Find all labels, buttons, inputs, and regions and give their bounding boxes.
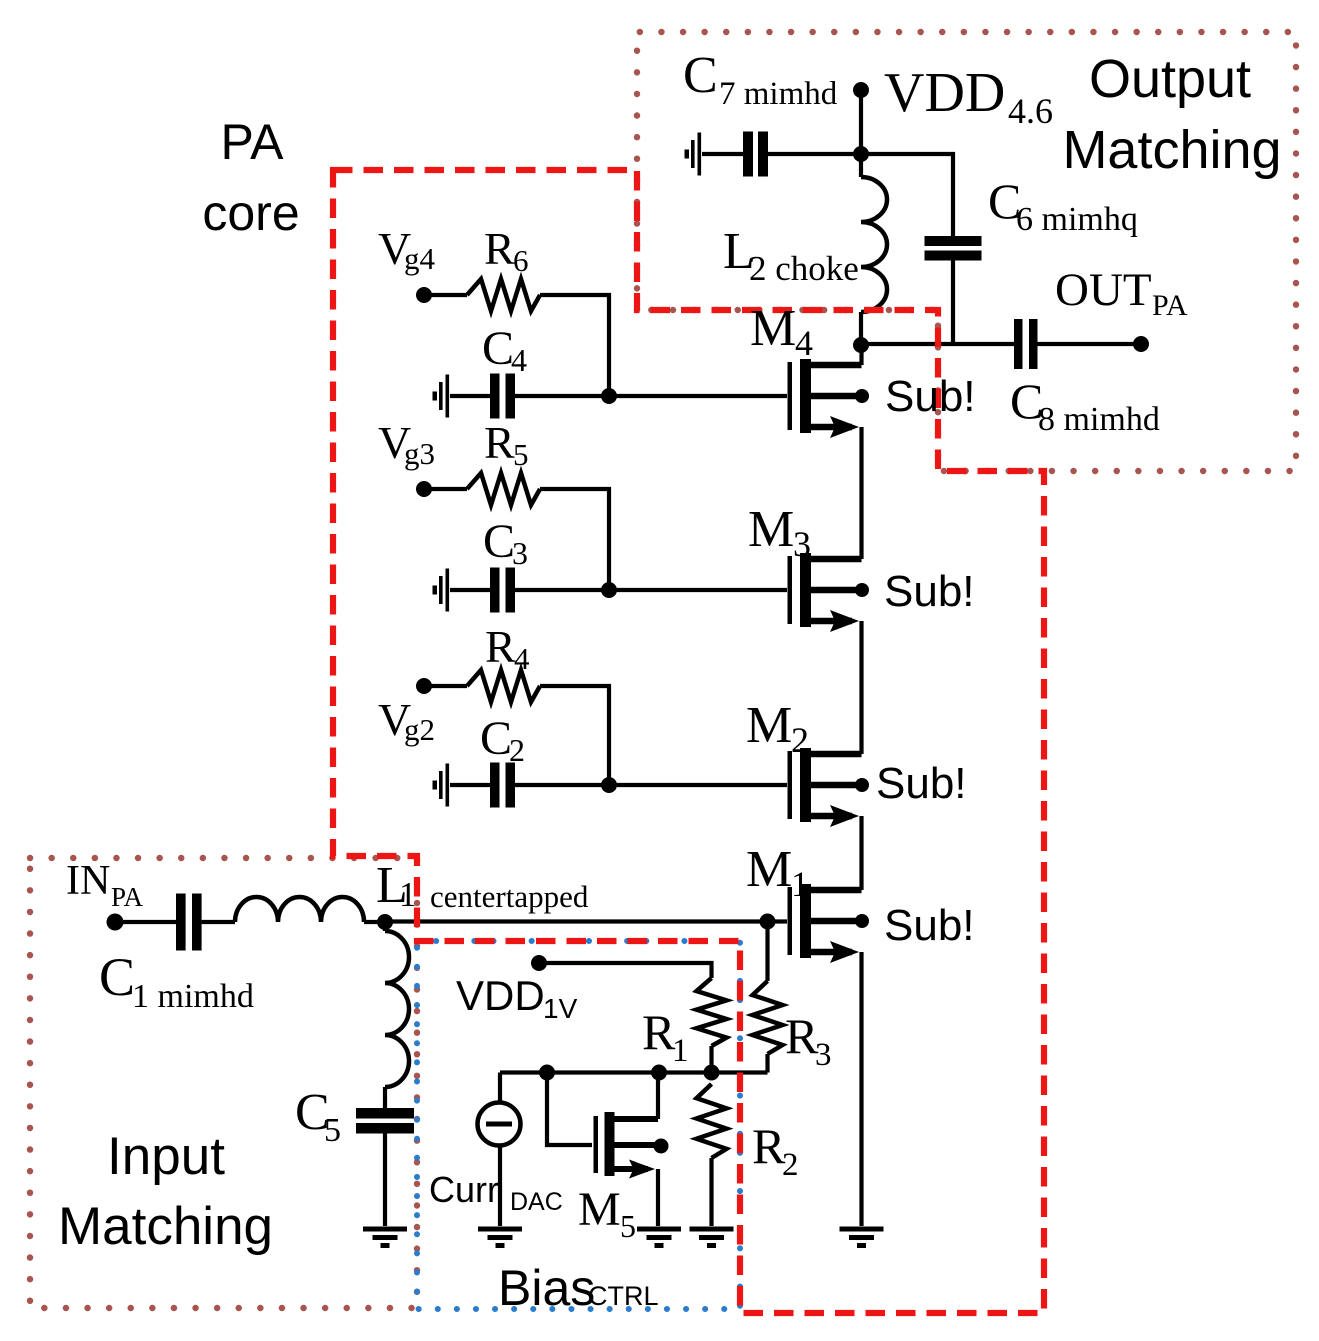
junction L1 center tap <box>377 914 393 930</box>
svg-text:IN: IN <box>66 858 110 904</box>
junction VDD/C7/C6 node <box>853 146 869 162</box>
junction gate node C4/R6 <box>601 388 617 404</box>
svg-text:M: M <box>748 501 794 558</box>
capacitor C6 <box>925 236 982 246</box>
resistor R3 <box>753 981 783 1054</box>
wire bias node rail <box>500 1070 768 1074</box>
wire C3 ground lead <box>450 588 490 592</box>
svg-text:2: 2 <box>782 1147 799 1183</box>
svg-text:centertapped: centertapped <box>430 879 589 914</box>
wire M2 source to M1 drain <box>859 816 863 890</box>
svg-text:DAC: DAC <box>510 1188 563 1216</box>
resistor R1 <box>697 978 727 1046</box>
ground (R2) <box>690 1227 734 1232</box>
svg-text:g4: g4 <box>404 241 436 276</box>
svg-text:1 mimhd: 1 mimhd <box>132 978 254 1015</box>
ground (M5 source) <box>637 1227 681 1232</box>
svg-text:PA: PA <box>1152 289 1188 322</box>
wire M5 drain to bias rail <box>656 1073 660 1120</box>
ground (M1 source) <box>840 1227 884 1232</box>
svg-text:Bias: Bias <box>498 1260 595 1316</box>
wire C7 ground lead <box>702 152 743 156</box>
junction M1 gate / R3 <box>760 914 776 930</box>
wire R5 to gate node <box>540 489 609 590</box>
wire C3 to gate node <box>515 588 609 592</box>
svg-text:Sub!: Sub! <box>884 567 975 616</box>
wire Vg2 to R4 <box>424 684 467 688</box>
svg-text:core: core <box>202 185 299 241</box>
ground (C3 left, small rotated) <box>446 569 450 612</box>
svg-text:8 mimhd: 8 mimhd <box>1038 401 1160 438</box>
wire L1 to center tap <box>364 920 385 924</box>
capacitor C8 <box>1014 319 1023 369</box>
wire Vg3 to R5 <box>424 487 467 491</box>
junction bias rail / M5 drain <box>651 1065 667 1081</box>
svg-text:4.6: 4.6 <box>1008 91 1053 131</box>
svg-text:OUT: OUT <box>1055 264 1152 316</box>
wire VDD1V to R1 <box>539 963 712 978</box>
wire VDD node to C6 top <box>861 154 953 237</box>
wire M1 source to ground <box>859 952 863 1226</box>
svg-text:VDD: VDD <box>884 62 1005 124</box>
svg-text:R: R <box>752 1118 786 1174</box>
transistor M1 <box>788 887 793 955</box>
wire R1 to bias node <box>709 1046 713 1073</box>
node VDD4.6 terminal <box>853 82 869 98</box>
wire center tap to M1 gate <box>385 919 787 923</box>
wire gate node to transistor gate <box>609 783 787 787</box>
svg-text:6 mimhq: 6 mimhq <box>1016 201 1138 238</box>
svg-text:C: C <box>482 322 514 375</box>
capacitor C3 <box>490 568 500 613</box>
ground (C2 left, small rotated) <box>446 764 450 807</box>
svg-text:VDD: VDD <box>456 972 545 1019</box>
svg-text:Matching: Matching <box>58 1197 273 1256</box>
transistor M3 <box>788 556 793 624</box>
svg-text:2: 2 <box>791 720 809 760</box>
wire L2 bottom to drain node <box>859 312 863 345</box>
node VDD1V terminal <box>531 955 547 971</box>
svg-text:CTRL: CTRL <box>588 1281 659 1311</box>
svg-text:R: R <box>484 223 515 274</box>
node Vg3 terminal <box>416 481 432 497</box>
svg-text:R: R <box>642 1004 676 1060</box>
svg-text:Sub!: Sub! <box>884 901 975 950</box>
wire C2 to gate node <box>515 783 609 787</box>
svg-text:1V: 1V <box>543 993 578 1024</box>
svg-text:C: C <box>683 47 718 104</box>
wire M4 source to M3 drain <box>859 427 863 559</box>
capacitor C1 <box>176 894 186 951</box>
svg-text:C: C <box>480 712 512 765</box>
junction bias rail / R1 R2 <box>704 1065 720 1081</box>
wire gate node to transistor gate <box>609 394 787 398</box>
capacitor C4 <box>490 374 500 419</box>
ground (Curr_DAC) <box>478 1227 522 1232</box>
inductor L2 choke <box>861 177 887 312</box>
transistor M2 <box>788 751 793 819</box>
svg-text:Curr: Curr <box>429 1169 499 1210</box>
svg-text:g3: g3 <box>404 436 435 471</box>
svg-text:PA: PA <box>221 114 285 170</box>
current source Curr_DAC <box>478 1103 521 1146</box>
resistor R2 <box>697 1084 727 1158</box>
ground (C5) <box>363 1227 407 1232</box>
wire gate node to transistor gate <box>609 588 787 592</box>
wire IN_PA to C1 <box>115 920 176 924</box>
junction gate node C2/R4 <box>601 777 617 793</box>
junction bias rail / M5 gate <box>539 1065 555 1081</box>
svg-text:Sub!: Sub! <box>885 372 976 421</box>
svg-text:M: M <box>746 697 792 754</box>
region box: Input Matching (dotted) <box>30 858 417 1308</box>
resistor R6 <box>467 279 540 311</box>
svg-text:1: 1 <box>672 1033 689 1069</box>
wire C1 to L1 <box>202 920 235 924</box>
svg-text:6: 6 <box>513 243 529 278</box>
resistor R5 <box>467 473 540 505</box>
ground (C4 left, small rotated) <box>446 375 450 418</box>
svg-text:5: 5 <box>513 437 529 472</box>
wire R4 to gate node <box>540 686 609 785</box>
node Vg4 terminal <box>416 287 432 303</box>
region box: Bias CTRL (dotted) <box>417 941 740 1309</box>
wire C2 ground lead <box>450 783 490 787</box>
wire C4 ground lead <box>450 394 490 398</box>
svg-text:Input: Input <box>107 1127 225 1186</box>
svg-text:4: 4 <box>795 323 813 363</box>
wire drain node to C8 <box>861 342 1014 346</box>
wire center tap down <box>383 922 387 931</box>
region box: Output Matching (dotted) <box>637 32 1296 471</box>
svg-text:R: R <box>484 417 515 468</box>
transistor M5 <box>594 1116 599 1173</box>
wire bias rail to current source <box>498 1073 502 1104</box>
junction gate node C3/R5 <box>601 582 617 598</box>
wire current source to ground <box>498 1145 502 1227</box>
junction M4 drain node <box>853 337 869 353</box>
svg-text:C: C <box>483 515 515 568</box>
svg-text:3: 3 <box>815 1037 832 1073</box>
node Vg2 terminal <box>416 678 432 694</box>
wire VDD to L2 top junction <box>859 90 863 177</box>
wire L1 to C5 <box>383 1087 387 1108</box>
svg-text:M: M <box>750 300 796 357</box>
wire bias rail to M5 gate <box>547 1073 592 1146</box>
wire C6 bottom to output node <box>951 261 955 345</box>
svg-text:R: R <box>785 1008 819 1064</box>
wire M5 source to ground <box>656 1169 660 1226</box>
wire M3 source to M2 drain <box>859 621 863 754</box>
region box: PA core (red dashed outline) <box>333 170 1044 1313</box>
svg-text:PA: PA <box>111 882 144 912</box>
svg-text:5: 5 <box>620 1208 636 1244</box>
wire M1 gate to R3 <box>765 922 769 982</box>
svg-text:C: C <box>99 947 135 1007</box>
capacitor C5 <box>356 1108 414 1119</box>
node OUT_PA terminal <box>1133 336 1149 352</box>
svg-text:1: 1 <box>791 864 809 904</box>
svg-text:2: 2 <box>509 732 525 768</box>
svg-text:Matching: Matching <box>1062 120 1281 180</box>
svg-text:Sub!: Sub! <box>876 759 967 808</box>
svg-text:R: R <box>485 621 516 672</box>
wire C4 to gate node <box>515 394 609 398</box>
ground (C7 left plate, small rotated) <box>698 133 702 176</box>
svg-text:5: 5 <box>324 1112 341 1149</box>
svg-text:M: M <box>746 841 792 898</box>
svg-text:3: 3 <box>512 535 528 571</box>
wire Vg4 to R6 <box>424 293 467 297</box>
inductor L1 lower half (vertical) <box>385 931 409 1087</box>
capacitor C7 <box>743 132 753 177</box>
svg-text:3: 3 <box>793 524 811 564</box>
svg-text:1: 1 <box>399 875 417 914</box>
wire R6 to gate node <box>540 295 609 396</box>
wire M4 drain stub <box>859 345 863 365</box>
svg-text:7 mimhd: 7 mimhd <box>719 76 838 112</box>
svg-text:g2: g2 <box>404 712 435 747</box>
wire R2 to ground <box>709 1158 713 1226</box>
node IN_PA terminal <box>107 914 124 931</box>
svg-text:4: 4 <box>511 342 527 378</box>
wire C7 to VDD node <box>768 152 862 156</box>
svg-text:4: 4 <box>514 641 530 676</box>
capacitor C2 <box>490 763 500 808</box>
svg-text:M: M <box>578 1183 621 1236</box>
wire R3 to bias node <box>765 1054 769 1073</box>
wire C5 to ground <box>383 1134 387 1227</box>
inductor L1 centertapped (horizontal) <box>235 897 364 922</box>
transistor M4 <box>788 362 793 430</box>
svg-text:Output: Output <box>1089 49 1251 109</box>
wire C8 to OUT_PA <box>1038 342 1142 346</box>
resistor R4 <box>467 670 540 702</box>
svg-text:2 choke: 2 choke <box>749 249 859 288</box>
